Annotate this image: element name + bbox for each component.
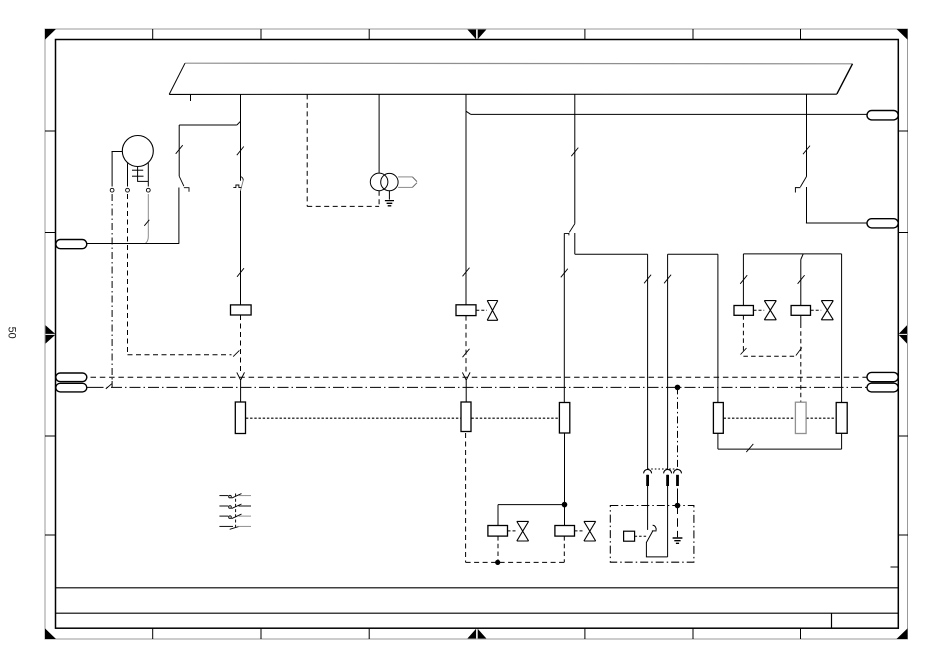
svg-text:50: 50 [5, 327, 17, 339]
